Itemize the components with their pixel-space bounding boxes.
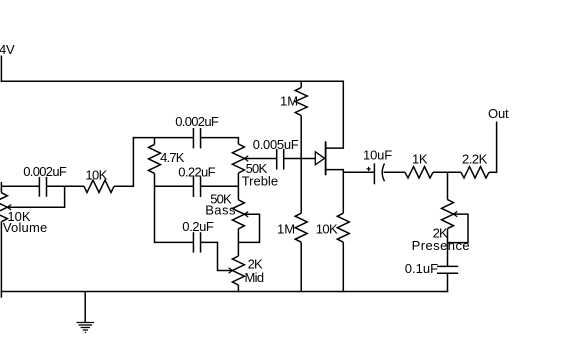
svg-text:2.2K: 2.2K <box>462 151 488 166</box>
capacitor C6 10uF polarized <box>373 163 375 184</box>
svg-text:1M: 1M <box>277 221 295 236</box>
wire out stub <box>496 122 498 174</box>
wire presence wiper loop <box>447 214 468 243</box>
resistor 2.2K <box>461 167 489 178</box>
wire bass cap right <box>201 185 240 187</box>
svg-text:Volume: Volume <box>3 220 48 235</box>
wire cap to 1K <box>384 171 405 173</box>
potentiometer 50K Bass <box>232 200 244 229</box>
wire tone stack top right <box>201 137 240 139</box>
svg-text:10uF: 10uF <box>363 148 392 163</box>
wire 1K to junction <box>433 171 461 173</box>
wire input segment A <box>1 185 39 187</box>
svg-text:0.1uF: 0.1uF <box>405 261 438 276</box>
wire ground rail <box>1 291 449 293</box>
capacitor C7 0.1uF <box>437 265 458 267</box>
potentiometer 50K Treble <box>237 138 239 144</box>
wire treble wiper to cap <box>244 158 276 160</box>
svg-text:0.002uF: 0.002uF <box>175 114 219 129</box>
svg-text:10K: 10K <box>85 168 107 183</box>
wire emitter tap <box>326 169 344 171</box>
resistor 10K emitter <box>342 169 344 213</box>
wire riser to tone stack top <box>132 137 134 187</box>
svg-text:Bass: Bass <box>205 202 236 217</box>
svg-text:0.002uF: 0.002uF <box>23 164 67 179</box>
potentiometer 2K Mid <box>232 256 244 285</box>
wire rail drop to collector <box>342 81 344 149</box>
capacitor C2 0.002uF treble <box>192 128 194 148</box>
resistor R2 4.7K slope <box>154 138 156 145</box>
svg-text:1M: 1M <box>280 93 298 108</box>
resistor 1M upper <box>300 81 302 88</box>
wire mid cap left <box>155 241 194 243</box>
wire bass cap left <box>155 185 194 187</box>
wire bass wiper loop <box>238 214 260 242</box>
capacitor C5 0.005uF <box>276 149 278 170</box>
bass wiper arrow <box>244 212 248 217</box>
wire input segment B <box>47 185 85 187</box>
transistor Q1 <box>315 152 324 165</box>
resistor 1K <box>405 167 433 178</box>
treble wiper arrow <box>244 156 248 161</box>
wire input segment C <box>114 185 134 187</box>
wire emitter to output cap <box>343 171 374 173</box>
svg-text:1K: 1K <box>412 151 428 166</box>
svg-text:Treble: Treble <box>242 174 278 189</box>
potentiometer 10K Volume <box>0 182 2 193</box>
capacitor C3 0.22uF bass <box>192 177 194 197</box>
svg-text:0.2uF: 0.2uF <box>182 219 214 234</box>
svg-text:4V: 4V <box>0 42 15 57</box>
wire mid cap right <box>201 242 233 270</box>
wire tone stack top left <box>133 137 194 139</box>
wire junction to presence <box>447 172 449 199</box>
svg-text:Out: Out <box>488 106 509 121</box>
resistor R1 10K series <box>84 180 114 192</box>
wire 2.2K to out <box>489 171 497 173</box>
wire supply vertical <box>0 56 2 82</box>
wire top supply rail <box>1 80 344 82</box>
wire cap to ground rail <box>447 273 449 292</box>
svg-text:0.22uF: 0.22uF <box>178 165 215 180</box>
svg-text:Mid: Mid <box>245 270 264 285</box>
potentiometer 2K Presence <box>442 200 454 229</box>
capacitor C1 0.002uF <box>38 177 40 197</box>
ground <box>84 292 86 323</box>
resistor 1M lower <box>300 159 302 214</box>
wire collector tap <box>326 147 344 149</box>
capacitor C4 0.2uF mid <box>192 232 194 252</box>
svg-text:4.7K: 4.7K <box>160 150 185 165</box>
wire volume wiper <box>7 206 65 208</box>
wire wiper riser <box>64 186 66 208</box>
mid wiper arrow <box>229 268 233 273</box>
presence wiper arrow <box>454 211 458 216</box>
volume wiper arrow <box>7 205 11 210</box>
svg-text:0.005uF: 0.005uF <box>253 137 299 152</box>
svg-text:10K: 10K <box>316 221 338 236</box>
svg-text:Presence: Presence <box>412 238 471 253</box>
wire cap to base <box>284 158 316 160</box>
